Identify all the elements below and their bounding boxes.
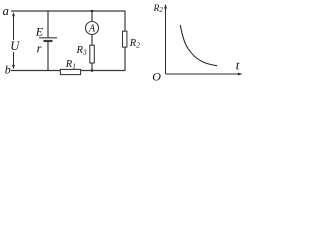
wire top (11, 10, 126, 12)
wire bottom (11, 70, 126, 72)
graph axis t horizontal (166, 73, 243, 76)
wire ammeter branch upper (91, 11, 93, 22)
resistor R3 (90, 45, 95, 63)
battery cell E r (39, 11, 57, 71)
svg-text:R2: R2 (129, 38, 140, 50)
svg-text:R1: R1 (65, 59, 76, 71)
junction dot bottom (91, 69, 94, 72)
svg-text:R3: R3 (76, 45, 87, 57)
svg-text:R2: R2 (153, 4, 164, 14)
svg-text:O: O (152, 70, 161, 84)
resistor R1 (60, 69, 80, 74)
svg-text:E: E (35, 25, 44, 39)
svg-text:U: U (10, 39, 20, 53)
resistor R2 (123, 31, 127, 47)
voltage arrow U upper (12, 12, 15, 40)
svg-text:a: a (3, 4, 9, 18)
svg-text:A: A (88, 24, 96, 35)
svg-text:b: b (5, 63, 11, 77)
voltage arrow U lower (12, 52, 15, 69)
junction dot top (91, 10, 94, 13)
svg-text:r: r (37, 42, 42, 56)
graph axis R2 vertical (164, 4, 167, 74)
wire R3 to bottom (91, 63, 93, 71)
wire ammeter to R3 (91, 34, 93, 45)
curve R2 vs t (180, 25, 217, 66)
svg-text:t: t (236, 58, 240, 73)
ammeter A (86, 22, 99, 35)
wire right (124, 11, 126, 71)
